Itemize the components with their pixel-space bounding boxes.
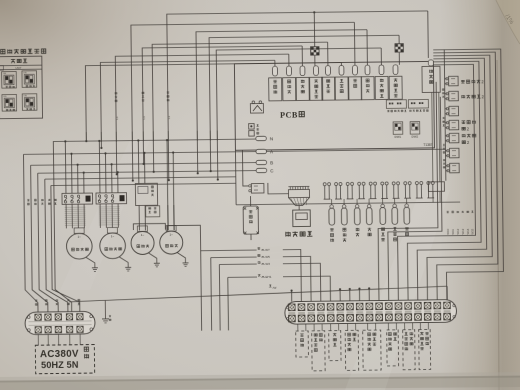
wire drop to terminal [339, 289, 341, 301]
motor compressor M1 压缩机1 [66, 233, 92, 259]
wire bus A inside PCB [266, 149, 445, 151]
relay output box K5 [322, 77, 335, 100]
wires TB1 to power label [37, 335, 39, 346]
svg-text:L1: L1 [115, 116, 119, 120]
wire drop to PCB output connector [366, 30, 368, 65]
relay output box K8 [361, 77, 374, 100]
load box make-up water valve 补水电磁阀 [312, 331, 325, 371]
wire W3 [219, 263, 320, 302]
wire mains long run [69, 286, 447, 302]
svg-text:DW1: DW1 [394, 135, 401, 139]
display connector comb [288, 189, 309, 197]
svg-text:1~: 1~ [141, 233, 145, 237]
pressure switch plug P4 [449, 120, 459, 130]
wire EMI filter 2 to PCB connector [398, 53, 400, 65]
svg-text:/B-W5: /B-W5 [261, 255, 270, 259]
electronic expansion valve driver 2 [408, 99, 428, 108]
wire long sensor bus [236, 202, 460, 205]
relay output box K9 [375, 76, 388, 99]
wire drop left [218, 265, 221, 331]
wire W5 [211, 256, 311, 302]
DIP switch panel box 双系统 [0, 56, 43, 119]
wire contactor feed [98, 141, 101, 193]
wire top bracket 5 [152, 42, 329, 141]
relay output box K6 [335, 77, 348, 100]
phase wire label [48, 199, 50, 201]
wire top bracket 1 [167, 11, 430, 141]
svg-text:UNIT: UNIT [15, 66, 22, 70]
pressure switch plug P5 [449, 133, 459, 143]
wire bus B [31, 163, 256, 166]
TB2 centre number strip [288, 312, 295, 314]
svg-text:W15: W15 [471, 228, 475, 234]
wire TB2 to load [367, 323, 369, 330]
DIP switch SW1 [2, 71, 17, 88]
PCB input terminal C [256, 168, 267, 173]
svg-text:/W: /W [273, 286, 277, 290]
wire right rail 5 [433, 52, 498, 300]
wire plug rails to terminals [376, 82, 438, 301]
PCB output connector [393, 65, 398, 75]
svg-text:/B-W3: /B-W3 [261, 262, 270, 266]
wires circulation pump relay to connector [432, 92, 433, 181]
relay output box K1 [269, 78, 282, 101]
PCB input terminal B [256, 160, 267, 165]
wire pair to fan [138, 205, 140, 230]
circulation pump connector [428, 60, 433, 66]
connector J5 [251, 183, 264, 193]
wire drop left [210, 258, 213, 331]
svg-text:/B-EH1: /B-EH1 [261, 275, 271, 279]
PCB output connector [273, 66, 278, 76]
svg-text:W12: W12 [456, 228, 460, 234]
wire TB2 to load [313, 324, 315, 331]
electronic expansion valve driver 1 [386, 100, 406, 109]
wire TB2 to load [404, 323, 406, 330]
wire drop to circulation pump connector [427, 11, 430, 58]
phase wire label [34, 199, 36, 201]
temperature probe RT5 [382, 199, 384, 205]
wire drop to terminal [291, 291, 293, 302]
sensor connector [358, 185, 360, 198]
wire right rail 2 [405, 61, 482, 300]
load box high level switch 高水位磁控开关 [403, 330, 415, 370]
wire contactor feed [77, 165, 79, 193]
temperature probe RT3 [356, 199, 358, 205]
wire drop left [200, 251, 203, 331]
page right edge line [497, 60, 499, 390]
temperature probe RT4 [368, 199, 370, 205]
main terminal block TB1 [25, 311, 95, 334]
wire comb to PCB edge [268, 183, 289, 194]
PCB output connector [300, 66, 305, 76]
EMI filter module (checkered) FL2 [395, 44, 404, 53]
junction [196, 131, 199, 173]
probe label [381, 228, 384, 231]
ground symbol at TB1 [104, 300, 106, 318]
wire drop left [227, 277, 230, 330]
ground [148, 253, 156, 264]
svg-text:50HZ 5N: 50HZ 5N [41, 360, 79, 370]
terminal block TB2 [285, 300, 457, 325]
wire contactor feed [64, 141, 67, 193]
wire TB2 to load [330, 324, 332, 331]
wire top bracket 2 [131, 22, 356, 141]
wire contactor feed [83, 173, 85, 193]
load box water flow switch 水流压开关 [387, 330, 399, 366]
wire drop to terminal [358, 289, 360, 301]
load box supply pump 供水泵 [329, 331, 341, 361]
wire label [167, 115, 171, 119]
svg-text:PCB: PCB [280, 111, 298, 120]
wire top bracket 7 [216, 48, 382, 141]
wire top bracket 3 [196, 30, 368, 141]
wire bus A [23, 152, 255, 155]
wire drop to PCB output connector [274, 60, 276, 66]
junction [167, 131, 170, 180]
funnel to display [289, 197, 310, 205]
probe label [330, 228, 334, 231]
wire TB2 to load [347, 324, 349, 331]
wire pair to fan [167, 205, 169, 230]
circulation pump relay box 循环泵 [422, 66, 440, 92]
svg-text:W10: W10 [446, 228, 450, 234]
wire drop to PCB output connector [327, 42, 329, 65]
junction [85, 132, 87, 141]
wire right rail column [444, 50, 446, 181]
wire EH1 [228, 276, 331, 302]
page edge curve top-right [496, 0, 520, 44]
pressure switch plug P3 [449, 106, 459, 116]
power label AC380V 50HZ 5N [35, 345, 94, 374]
wire bus N [53, 139, 256, 144]
svg-text:N: N [270, 136, 273, 141]
sensor connector [393, 185, 395, 198]
wire EMI filter 1 to PCB connector [314, 56, 316, 66]
relay output box K2 [283, 78, 296, 101]
control panel label [286, 232, 290, 237]
wire bundle to compressor [65, 204, 67, 228]
wire top bracket 10 [85, 62, 342, 142]
svg-text:AC380V: AC380V [40, 349, 79, 360]
junction [142, 131, 144, 163]
wire labels right [446, 228, 450, 234]
PCB board outline [234, 61, 434, 150]
PCB DIP switch DW1 [393, 122, 403, 135]
svg-text:L1: L1 [167, 115, 171, 119]
phase wire label [41, 199, 43, 201]
wire fan feed [167, 140, 168, 230]
phase labels above TB1 [35, 300, 37, 302]
sheen [345, 190, 450, 390]
wire top bracket 6 [142, 46, 303, 141]
remote sensor module [243, 206, 258, 234]
junction [216, 131, 219, 180]
svg-text:L1: L1 [142, 116, 146, 120]
svg-text:1~: 1~ [77, 235, 81, 239]
contactor KM2 [96, 193, 127, 204]
svg-text:T1387: T1387 [423, 143, 432, 147]
svg-text:W14: W14 [466, 228, 470, 234]
temperature probe RT2 [343, 199, 345, 205]
sensor connector [324, 186, 326, 199]
load box low level switch 低水位磁控开关 [419, 329, 431, 369]
wire plug to rail [445, 135, 447, 137]
wire J5 to PCB [242, 150, 248, 186]
junction [115, 132, 118, 174]
wire drop to terminal [349, 289, 351, 301]
wire bus aux 2 [51, 183, 236, 185]
junction [100, 132, 102, 148]
contactor KM1 [62, 193, 93, 204]
temperature probe RT6 [394, 198, 396, 204]
temperature probe RT1 [331, 199, 333, 205]
svg-text:1~: 1~ [169, 233, 173, 237]
PCB input terminal A [256, 149, 267, 154]
wire drop to EMI filter 1 [313, 12, 315, 46]
svg-text:DW2: DW2 [411, 135, 418, 139]
relay output box K7 [349, 77, 362, 100]
ground [119, 257, 128, 268]
PCB output connector [287, 66, 292, 76]
wire W7 [201, 250, 302, 303]
wire fan1 feed bridge [133, 223, 165, 230]
temperature probe RT7 [406, 198, 408, 204]
wire fan feed [137, 140, 140, 183]
pressure switch plug P1 [449, 76, 459, 86]
sensor connector [381, 185, 383, 198]
wire contactor feed [117, 172, 119, 192]
ground wire label 地线 [84, 347, 88, 351]
wire drop to PCB output connector [340, 62, 342, 65]
junction on top wire [313, 11, 315, 13]
wire right rail 4 [425, 55, 493, 300]
wire fan feed [143, 153, 145, 183]
wire drop to terminal [368, 288, 370, 300]
page bottom edge shadow [0, 372, 520, 390]
sensor connector [416, 185, 418, 198]
svg-text:1~: 1~ [111, 234, 115, 238]
PCB output connector [379, 65, 384, 75]
fuse F1 [250, 103, 263, 113]
wire top bracket 4 [209, 35, 400, 140]
wire bus C [38, 171, 256, 174]
svg-text:/B-W7: /B-W7 [261, 248, 270, 252]
DIP switch panel title 电控板拨码开关 [1, 49, 5, 53]
DIP switch SW2 [22, 71, 37, 88]
phase wire label [27, 199, 29, 201]
wire remote module stubs [250, 196, 252, 206]
load box return water valve 回水电磁阀 [345, 330, 358, 370]
relay output box K10 [389, 76, 402, 99]
wire drop to PCB output connector [380, 48, 382, 65]
DIP switch SW4 [22, 94, 37, 111]
phase columns to TB1 [23, 154, 38, 313]
wire contactor feed [104, 153, 106, 192]
ground [177, 252, 185, 263]
pressure switch labels [461, 80, 465, 83]
wire blue W long [268, 284, 280, 290]
sensor connector [404, 185, 406, 198]
PCB output connector [326, 66, 331, 76]
wire bus aux 1 [45, 177, 236, 179]
wire plug to rail [445, 78, 447, 80]
PCB output connector [339, 65, 344, 75]
wire right rail 1 [396, 64, 477, 300]
wire plug to rail [445, 150, 447, 152]
sensor connector [335, 186, 337, 199]
wire plug to rail [445, 93, 447, 95]
wire fan feed [172, 153, 175, 230]
wire fan2 feed bridge [167, 225, 200, 251]
wire contactor feed [111, 164, 113, 192]
DIP panel side tab [0, 66, 3, 71]
probe label [393, 227, 397, 230]
pressure switch plug P2 [449, 91, 459, 101]
probe label [343, 228, 346, 231]
sensor connector [370, 185, 372, 198]
wire PCB edge drop [234, 150, 237, 204]
ground [86, 257, 95, 268]
wire TB2 to load [419, 323, 421, 330]
pressure switch plug P7 [450, 163, 460, 173]
transformer T1 [249, 124, 255, 130]
DIP switch SW3 [2, 94, 17, 111]
junction [131, 132, 134, 181]
wire label [142, 116, 146, 120]
motor compressor M2 压缩机2 [100, 233, 126, 259]
probe label [356, 228, 359, 231]
PCB output connector [365, 65, 370, 75]
wire contactor feed [70, 154, 72, 193]
wire bundle to compressor [99, 204, 101, 228]
control panel display 控制面板 [293, 210, 311, 227]
junction [209, 131, 211, 171]
pressure switch plug P6 [449, 148, 459, 158]
wire plug to rail [446, 165, 448, 167]
junction [152, 131, 154, 171]
wire right rail 3 [415, 58, 487, 300]
wire plug to rail [445, 108, 447, 110]
wire drop to PCB output connector [301, 46, 303, 66]
probe label [405, 228, 409, 231]
thermal protector fan1 [135, 183, 157, 205]
wire top bracket 8 [115, 54, 290, 142]
wire drop to PCB output connector [353, 22, 356, 65]
wire right rail 6 [433, 49, 504, 300]
wire drop to PCB output connector [288, 54, 290, 66]
PCB DIP switch DW2 [410, 122, 420, 135]
sensor connector [347, 185, 349, 198]
PCB input terminal N [256, 136, 267, 141]
relay output box K4 [310, 77, 323, 100]
motor fan M4 风机二 [160, 231, 183, 254]
svg-text:W13: W13 [461, 228, 465, 234]
PCB output connector [314, 66, 319, 76]
motor fan M3 风机一 [131, 231, 154, 254]
svg-text:W11: W11 [451, 229, 455, 235]
phase wire label [54, 199, 56, 201]
EMI filter module (checkered) FL1 [311, 47, 320, 56]
relay output box K3 [296, 77, 309, 100]
wire top bracket 9 [100, 60, 275, 142]
load box heater signal port 电加热信号接口 [363, 330, 381, 370]
load box circulation pump 循环泵 [296, 331, 309, 357]
wire label [115, 116, 119, 120]
water-flow connector [428, 182, 444, 192]
PCB output connector [353, 65, 358, 75]
wire TB2 to load [387, 323, 389, 330]
wire plug to rail [445, 122, 447, 124]
wire bracket to EMI filter 2 [398, 35, 400, 43]
vertical small labels between plugs [442, 89, 444, 91]
wire TB2 to load [297, 324, 299, 331]
probe label [368, 228, 372, 232]
svg-text:B: B [270, 160, 273, 165]
sensor connector [427, 184, 429, 197]
